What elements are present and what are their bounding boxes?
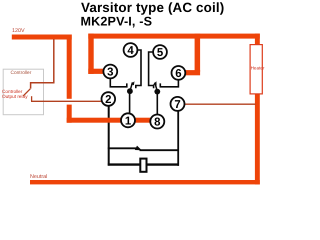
coil body rectangle bbox=[140, 159, 146, 172]
controller output relay switch bbox=[31, 83, 55, 89]
svg-text:Output relay: Output relay bbox=[2, 94, 28, 99]
wire stub to pin 3 bbox=[88, 69, 106, 74]
wire dot to pin 8 bbox=[156, 92, 158, 116]
svg-text:MK2PV-I, -S: MK2PV-I, -S bbox=[81, 14, 153, 28]
coil branch lower line bbox=[108, 163, 179, 165]
wire switched bus drop to pin 3 bbox=[88, 34, 93, 74]
svg-text:7: 7 bbox=[174, 99, 180, 111]
wire hot drop lower segment bbox=[67, 105, 72, 123]
wire heater to neutral bbox=[255, 94, 260, 185]
varistor arrow bbox=[135, 146, 142, 151]
svg-text:8: 8 bbox=[154, 117, 160, 129]
junction dot pole 2 bbox=[154, 89, 160, 95]
wire 120V hot bus bbox=[12, 35, 72, 40]
wire switched bus pin3/pin6 to heater bbox=[88, 34, 259, 39]
relay pin 5 bbox=[153, 45, 167, 59]
pin 5 stem to NO contact (right pole) bbox=[149, 52, 154, 88]
relay pin 1 bbox=[121, 113, 135, 127]
relay pin 8 bbox=[150, 115, 164, 129]
movable contact blade (right pole) bbox=[155, 83, 158, 92]
svg-text:Heater: Heater bbox=[251, 66, 265, 71]
wire neutral bus bbox=[30, 180, 260, 184]
wire stub to pin 6 bbox=[182, 70, 200, 75]
varistor branch upper line left segment bbox=[108, 147, 136, 149]
relay pin 3 bbox=[103, 65, 117, 79]
relay pin 7 bbox=[171, 97, 185, 111]
wire hot to pins 1 and 8 bbox=[67, 118, 161, 123]
pin 4 stem to NO contact (left pole) bbox=[136, 50, 141, 88]
svg-text:3: 3 bbox=[107, 67, 113, 79]
controller box bbox=[3, 69, 43, 115]
svg-text:Neutral: Neutral bbox=[30, 174, 47, 180]
wire switched bus drop to heater bbox=[255, 34, 260, 46]
wire controller feed from 120V bbox=[53, 39, 55, 83]
wire hot drop upper segment bbox=[67, 35, 72, 99]
svg-text:Controller: Controller bbox=[11, 70, 32, 76]
svg-text:120V: 120V bbox=[12, 28, 25, 34]
svg-text:2: 2 bbox=[105, 94, 111, 106]
heater bbox=[250, 45, 262, 94]
wire pin 7 to neutral bbox=[184, 103, 255, 105]
pin 3 stem to NC contact (left pole) bbox=[110, 78, 127, 87]
pin 6 stem to NC contact (right pole) bbox=[160, 79, 178, 87]
svg-text:1: 1 bbox=[125, 116, 132, 128]
wire dot to pin 1 bbox=[129, 91, 131, 114]
svg-text:5: 5 bbox=[157, 47, 164, 59]
relay pin 4 bbox=[124, 43, 138, 57]
relay pin 6 bbox=[172, 66, 186, 80]
svg-text:4: 4 bbox=[127, 45, 134, 57]
svg-text:6: 6 bbox=[175, 68, 181, 80]
relay pin 2 bbox=[102, 92, 116, 106]
wire riser from pin 6 bbox=[195, 34, 201, 72]
svg-text:Varsitor type (AC coil): Varsitor type (AC coil) bbox=[81, 0, 224, 15]
wire pin 7 to coil (right vertical) bbox=[177, 110, 179, 166]
junction dot pole 1 bbox=[127, 88, 133, 94]
movable contact blade (left pole) bbox=[130, 82, 133, 91]
varistor branch upper line right segment bbox=[140, 149, 180, 151]
wire controller output to pin 2 bbox=[31, 100, 102, 102]
wire pin 2 to coil (left vertical) bbox=[108, 105, 110, 165]
